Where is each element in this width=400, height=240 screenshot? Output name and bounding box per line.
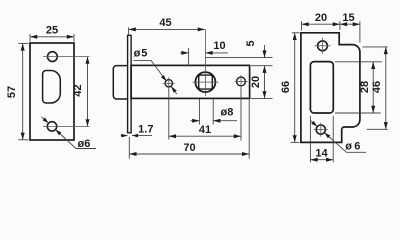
strike top hole crosshair: [315, 45, 331, 47]
dimension 45 line with arrows: [129, 28, 205, 30]
diameter 8 extension lines down from square: [198, 99, 200, 125]
strike bottom screw hole: [316, 125, 325, 134]
hole d5 (side view): [165, 80, 172, 87]
strike bottom hole crosshair: [314, 129, 328, 131]
hole d5 crosshair: [163, 82, 175, 84]
svg-text:ø6: ø6: [78, 138, 91, 150]
spindle hub circle: [195, 72, 215, 92]
dimension 10 extension line: [188, 48, 190, 66]
dimension 14 extension lines: [309, 116, 311, 162]
strike plate outline: [301, 33, 360, 143]
dimension 70 line with arrows: [129, 153, 249, 155]
svg-text:45: 45: [159, 17, 171, 29]
diameter 6 leader arrows on bottom hole: [42, 117, 46, 120]
top screw hole centerline: [43, 56, 90, 58]
dimension 20/15 extension lines: [301, 21, 303, 30]
svg-text:41: 41: [199, 124, 211, 136]
dimension 25 line with arrows: [30, 36, 74, 38]
dimension 57 line with arrows: [22, 43, 24, 139]
diameter 8 outside arrows: [191, 120, 200, 122]
extension: opening bottom to right: [335, 112, 381, 114]
third hole crosshair: [234, 81, 247, 83]
latch body case: [131, 65, 250, 98]
extension: top hole center to right: [363, 46, 388, 48]
diameter 5 leader shelf and diagonal: [134, 59, 152, 61]
third hole: [237, 77, 246, 86]
svg-text:ø8: ø8: [221, 107, 234, 119]
diameter 6 strike leader arrows: [310, 120, 313, 123]
dimension 41 extension lines: [168, 89, 170, 140]
dimension 41 line with arrows: [169, 135, 241, 137]
dimension 15 line with arrows: [340, 23, 360, 25]
svg-text:42: 42: [72, 84, 84, 96]
dimension 5 extension line (hole centerline level): [205, 57, 272, 59]
dimension 70 extension lines: [128, 137, 130, 159]
svg-text:46: 46: [371, 81, 383, 93]
dimension 14 line with arrows: [310, 159, 333, 161]
faceplate front plate: [30, 43, 74, 140]
dimension 25 extension lines: [29, 34, 31, 42]
extension: opening top to right: [335, 61, 382, 63]
top screw hole: [48, 52, 58, 62]
dimension 10 line, outside arrows: [180, 52, 188, 54]
dimension 42 line with arrows: [87, 57, 89, 127]
faceplate edge-on bar: [128, 35, 132, 133]
extension: bottom hole center to right: [367, 128, 388, 130]
diameter 6 leader shelf: [76, 148, 96, 150]
dimension 5 upper outside arrow: [264, 45, 266, 58]
dimension 28 line with arrows: [372, 62, 374, 113]
svg-text:10: 10: [213, 40, 225, 52]
dimension 1.7 outside arrows: [121, 135, 128, 137]
hub crosshair: [193, 81, 219, 83]
dimension 57 extension lines: [18, 42, 28, 44]
svg-text:20: 20: [315, 12, 327, 24]
svg-text:14: 14: [315, 148, 328, 160]
dimension 20 line with arrows (shared with dimension 5 lower arrow): [264, 66, 266, 99]
svg-text:15: 15: [342, 12, 354, 24]
svg-text:20: 20: [250, 76, 262, 88]
svg-text:57: 57: [6, 86, 18, 98]
latch bolt (side): [113, 66, 129, 99]
bottom screw hole: [47, 122, 56, 131]
svg-text:28: 28: [359, 81, 371, 93]
hub vertical centerline / extension up to dims: [204, 29, 206, 96]
svg-text:66: 66: [280, 81, 292, 93]
svg-text:25: 25: [46, 25, 58, 37]
bottom screw hole centerline: [43, 125, 90, 127]
dimension 46 line with arrows: [385, 47, 387, 129]
spindle square hole: [199, 75, 213, 89]
svg-text:ø 5: ø 5: [134, 48, 148, 60]
svg-text:ø 6: ø 6: [345, 141, 360, 153]
diameter 5 far-side arrow: [171, 86, 177, 94]
svg-text:70: 70: [183, 142, 195, 154]
strike latch opening: [310, 62, 333, 113]
dimension 45 left extension: [128, 27, 130, 35]
body bottom edge extension right: [251, 97, 273, 99]
dimension 66 extension lines: [292, 32, 300, 34]
latch bolt opening: [43, 71, 61, 104]
dimension 66 line with arrows: [294, 33, 296, 143]
svg-text:1.7: 1.7: [138, 123, 153, 135]
dimension 20 line with arrows: [302, 23, 340, 25]
svg-text:5: 5: [245, 40, 257, 46]
diameter 6 strike leader shelf: [347, 151, 367, 153]
body top edge extension right: [251, 65, 273, 67]
strike top screw hole: [318, 41, 328, 51]
